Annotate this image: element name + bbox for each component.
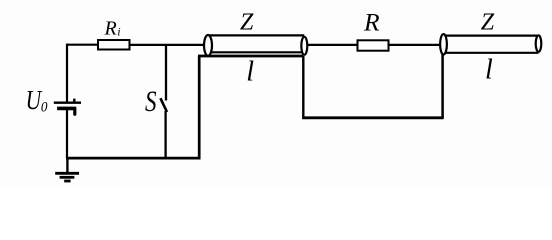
svg-text:l: l [246, 57, 254, 88]
svg-text:i: i [117, 25, 120, 39]
wire: bottom rail [66, 157, 201, 160]
wire: return conductor top edge under line 1 [198, 55, 303, 58]
resistor Ri [98, 18, 130, 50]
svg-text:0: 0 [41, 100, 48, 116]
wire: left return vertical to bottom rail [198, 56, 201, 159]
svg-text:Z: Z [240, 10, 254, 36]
wire: resistor R to transmission line 2 [389, 44, 441, 46]
wire: middle return rail [302, 116, 443, 119]
wire: return vertical right of line 1 [302, 56, 304, 119]
transmission line Z l (right cylinder) [440, 10, 541, 86]
wire: battery to bottom rail [66, 110, 68, 159]
voltage source U0 (battery) [26, 85, 81, 116]
wire: Ri to transmission line 1 [130, 44, 206, 46]
svg-text:R: R [363, 8, 380, 37]
svg-text:R: R [104, 18, 117, 40]
svg-text:U: U [26, 85, 43, 115]
ground [55, 158, 79, 181]
wire: left vertical down to battery [66, 44, 68, 102]
wire: return vertical up to line 2 [441, 54, 444, 119]
resistor R [358, 8, 389, 51]
transmission line Z l (left cylinder) [204, 10, 307, 88]
svg-text:S: S [145, 85, 157, 118]
svg-text:l: l [485, 55, 493, 86]
wire: transmission line 1 to resistor R [307, 44, 357, 46]
wire: top-left horizontal from source to Ri [66, 44, 98, 46]
svg-text:Z: Z [481, 10, 495, 36]
switch S [145, 45, 167, 159]
